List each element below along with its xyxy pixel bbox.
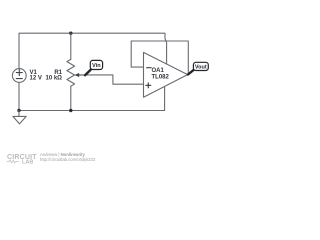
svg-text:TL082: TL082 bbox=[152, 75, 170, 81]
V1 plus sign bbox=[16, 70, 22, 76]
watermark CircuitLab logo bbox=[7, 154, 37, 166]
wire top rail bbox=[19, 33, 165, 68]
V1 minus sign bbox=[16, 78, 22, 80]
wire R1 top lead bbox=[70, 33, 72, 59]
op-amp plus input glyph bbox=[146, 83, 151, 88]
wire bottom rail bbox=[19, 110, 165, 112]
flag pointer Vin bbox=[85, 70, 91, 76]
svg-text:12 V: 12 V bbox=[30, 76, 42, 82]
node flag Vin box bbox=[90, 60, 102, 69]
wire R1 bottom lead bbox=[70, 86, 72, 110]
node junction dot R1 top bbox=[69, 32, 72, 35]
wire V1 bottom lead bbox=[18, 82, 20, 110]
svg-text:OA1: OA1 bbox=[152, 68, 165, 74]
wire V+ supply jog bbox=[165, 39, 167, 64]
node junction dot R1 bottom bbox=[69, 109, 72, 112]
op-amp OA1 triangle bbox=[144, 52, 188, 97]
svg-text:LAB: LAB bbox=[22, 160, 33, 166]
voltage source V1 bbox=[12, 69, 26, 83]
svg-text:Vin: Vin bbox=[92, 63, 101, 69]
flag pointer Vout bbox=[188, 70, 194, 75]
svg-text:Vout: Vout bbox=[195, 65, 207, 71]
node flag Vout box bbox=[193, 62, 208, 70]
R1 wiper arrow bbox=[76, 74, 86, 76]
wire V- supply bbox=[164, 86, 166, 110]
wire wiper to step bbox=[86, 75, 143, 84]
svg-text:http://circuitlab.com/c6dyk333: http://circuitlab.com/c6dyk333 bbox=[40, 157, 96, 162]
resistor R1 zigzag (potentiometer body) bbox=[67, 59, 75, 86]
ground bbox=[13, 111, 26, 124]
node junction dot ground bbox=[17, 109, 20, 112]
wire feedback loop output to inverting input bbox=[131, 41, 188, 74]
op-amp minus input glyph bbox=[147, 67, 151, 69]
svg-text:10 kΩ: 10 kΩ bbox=[46, 76, 63, 82]
